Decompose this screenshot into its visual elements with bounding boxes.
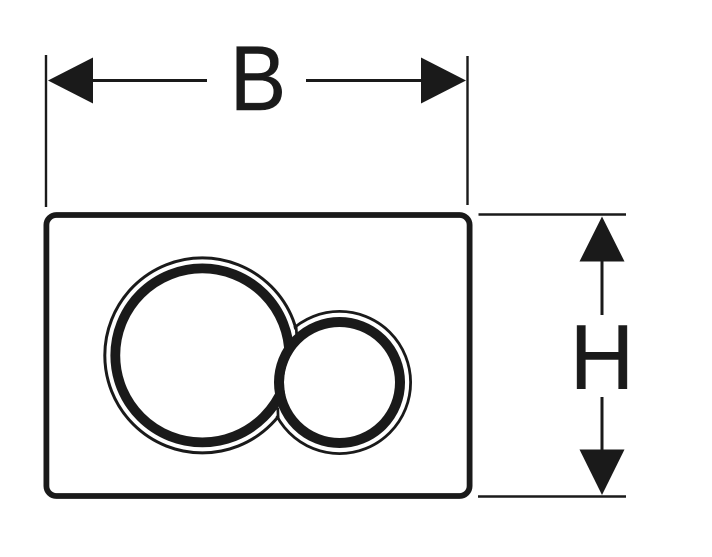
svg-text:B: B [230, 27, 286, 130]
svg-text:H: H [570, 307, 634, 410]
